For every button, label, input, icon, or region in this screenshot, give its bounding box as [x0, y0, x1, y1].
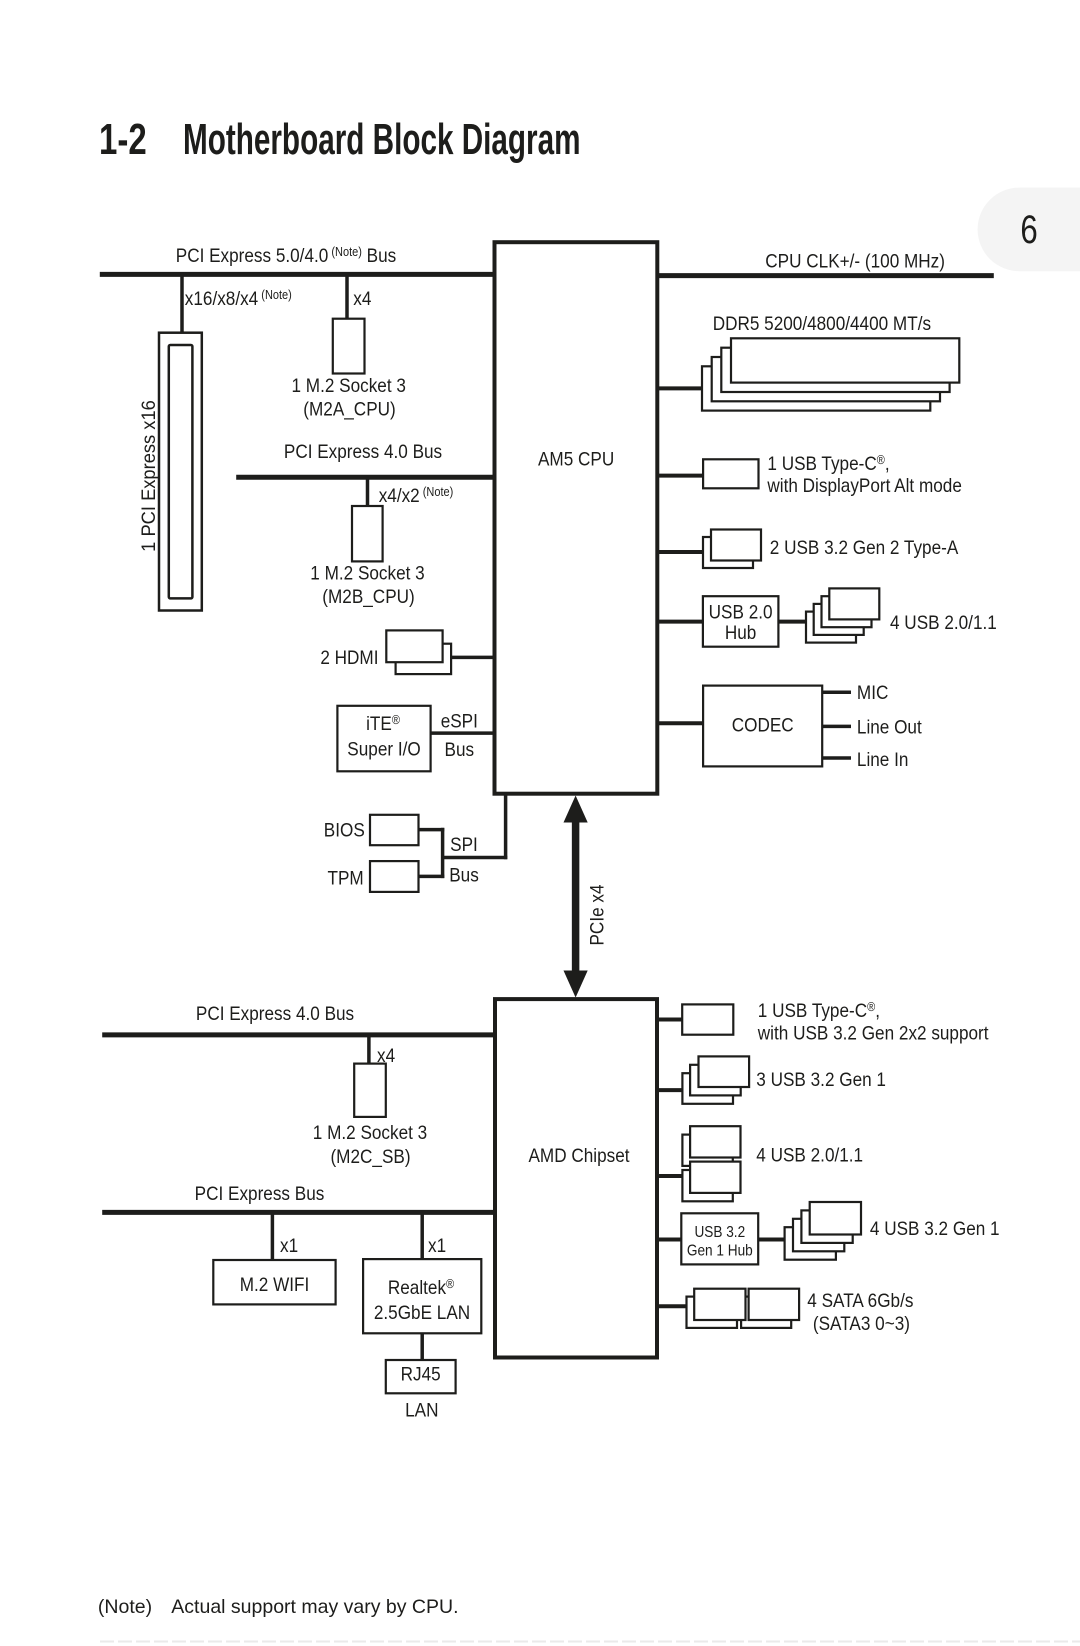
svg-text:(M2A_CPU): (M2A_CPU) — [303, 397, 395, 420]
connector: 2 USB 3.2 Gen 2 Type-A — [703, 530, 959, 569]
connector: 4 SATA 6Gb/s ports — [687, 1289, 914, 1335]
svg-text:LAN: LAN — [405, 1398, 438, 1420]
svg-text:BIOS: BIOS — [324, 818, 365, 840]
wire: CPU to USB Type-C — [657, 474, 703, 478]
svg-text:with DisplayPort Alt mode: with DisplayPort Alt mode — [766, 474, 961, 496]
bottom dashed rule — [100, 1641, 1080, 1643]
wire: hub to 4 USB 3.2 ports — [758, 1238, 785, 1242]
page number tab — [978, 188, 1080, 272]
svg-text:(M2B_CPU): (M2B_CPU) — [322, 585, 414, 608]
svg-text:USB 3.2: USB 3.2 — [694, 1224, 745, 1241]
wire: bus1 to PCIe x16 slot — [180, 276, 184, 334]
chip U7: AMD Chipset box — [495, 999, 657, 1357]
svg-text:with USB 3.2 Gen 2x2 support: with USB 3.2 Gen 2x2 support — [757, 1021, 989, 1043]
wire: hub to USB 2.0 ports — [778, 620, 806, 624]
svg-text:Line In: Line In — [857, 748, 909, 770]
wire: bus4 to Realtek LAN — [420, 1214, 424, 1260]
bus: PCI Express 4.0 Bus (CPU) — [236, 440, 494, 477]
svg-text:x1: x1 — [280, 1234, 298, 1256]
module: M.2 WIFI — [213, 1260, 335, 1304]
wire: iTE to CPU eSPI — [431, 731, 495, 735]
wire: Realtek to RJ45 — [420, 1333, 424, 1361]
svg-text:TPM: TPM — [327, 866, 363, 888]
chip U9: USB 3.2 Gen 1 Hub — [681, 1213, 758, 1264]
svg-text:Hub: Hub — [725, 621, 756, 643]
svg-text:Gen 1 Hub: Gen 1 Hub — [687, 1243, 753, 1260]
svg-text:DDR5 5200/4800/4400 MT/s: DDR5 5200/4800/4400 MT/s — [713, 312, 931, 334]
svg-text:x4: x4 — [353, 287, 371, 309]
svg-text:4 USB 2.0/1.1: 4 USB 2.0/1.1 — [890, 611, 997, 633]
svg-text:4 SATA 6Gb/s: 4 SATA 6Gb/s — [807, 1289, 913, 1311]
wire: SPI bus — [419, 794, 508, 878]
wire: chipset to 3 USB — [657, 1088, 682, 1092]
connector: DDR5 DIMM slots — [702, 338, 959, 410]
chip U3: BIOS — [324, 815, 419, 845]
chip U2: iTE Super I/O — [337, 706, 430, 772]
chip U4: TPM — [327, 861, 418, 892]
chip U8: Realtek 2.5GbE LAN — [363, 1259, 481, 1333]
svg-text:(Note): (Note) — [98, 1596, 152, 1618]
svg-text:1 USB Type-C®,: 1 USB Type-C®, — [758, 999, 880, 1021]
wire: MIC — [822, 690, 851, 694]
wire: chipset to hub — [657, 1238, 681, 1242]
wire: Line Out — [822, 725, 851, 729]
wire: CPU to CODEC — [657, 721, 703, 725]
connector M2C_SB: M.2 Socket 3 — [313, 1064, 427, 1169]
wire: bus3 to M2C socket — [367, 1037, 371, 1064]
svg-text:MIC: MIC — [857, 681, 888, 703]
bus: PCI Express 4.0 Bus (chipset) — [102, 1002, 495, 1035]
svg-text:1 M.2 Socket 3: 1 M.2 Socket 3 — [313, 1121, 427, 1143]
bus: CPU CLK — [657, 249, 994, 275]
svg-text:x16/x8/x4 (Note): x16/x8/x4 (Note) — [185, 287, 292, 309]
svg-text:1 USB Type-C®,: 1 USB Type-C®, — [767, 452, 889, 474]
svg-text:(M2C_SB): (M2C_SB) — [330, 1145, 410, 1168]
svg-text:PCIe x4: PCIe x4 — [585, 884, 607, 945]
wire: CPU to DIMMs — [657, 386, 702, 390]
svg-text:PCI Express 5.0/4.0 (Note) Bus: PCI Express 5.0/4.0 (Note) Bus — [176, 244, 396, 266]
svg-text:1 PCI Express x16: 1 PCI Express x16 — [139, 400, 161, 552]
svg-text:eSPI: eSPI — [441, 709, 478, 731]
svg-text:Super I/O: Super I/O — [347, 737, 420, 759]
wire: bus4 to M.2 WIFI — [271, 1214, 275, 1261]
svg-text:CODEC: CODEC — [732, 713, 794, 735]
wire: PCIe x4 link CPU-chipset (double arrow) — [564, 796, 608, 998]
svg-text:Motherboard Block Diagram: Motherboard Block Diagram — [183, 114, 580, 163]
svg-text:RJ45: RJ45 — [401, 1362, 441, 1384]
connector: 4 USB 2.0/1.1 ports (chipset) — [682, 1126, 863, 1201]
svg-text:3 USB 3.2 Gen 1: 3 USB 3.2 Gen 1 — [756, 1068, 886, 1090]
wire: Line In — [822, 756, 851, 760]
svg-text:(SATA3 0~3): (SATA3 0~3) — [813, 1312, 910, 1334]
svg-text:1 M.2 Socket 3: 1 M.2 Socket 3 — [310, 561, 424, 583]
svg-text:SPI: SPI — [450, 833, 478, 855]
footnote — [98, 1596, 459, 1618]
connector M2B_CPU: M.2 Socket 3 — [310, 506, 424, 608]
page title — [99, 114, 580, 164]
connector: USB Type-C (CPU) — [703, 452, 962, 496]
svg-text:PCI Express 4.0 Bus: PCI Express 4.0 Bus — [284, 440, 442, 462]
wire: CPU to USB 3.2 Gen 2 — [657, 550, 703, 554]
svg-text:USB 2.0: USB 2.0 — [709, 600, 773, 622]
svg-text:x1: x1 — [428, 1234, 446, 1256]
svg-text:PCI Express 4.0 Bus: PCI Express 4.0 Bus — [196, 1002, 354, 1024]
svg-text:Bus: Bus — [445, 738, 475, 760]
chip U5: USB 2.0 Hub — [703, 596, 779, 647]
wire: chipset to SATA — [657, 1304, 687, 1308]
wire: chipset to USB Type-C — [657, 1018, 682, 1022]
connector: 4 USB 2.0/1.1 ports (CPU) — [806, 588, 997, 642]
bus: PCI Express 5.0/4.0 Bus — [100, 244, 495, 274]
svg-text:4 USB 3.2 Gen 1: 4 USB 3.2 Gen 1 — [870, 1217, 1000, 1239]
wire: CPU to USB 2.0 hub — [657, 620, 703, 624]
svg-text:6: 6 — [1020, 207, 1037, 252]
svg-text:2 USB 3.2 Gen 2 Type-A: 2 USB 3.2 Gen 2 Type-A — [770, 536, 959, 558]
connector: RJ45 — [386, 1360, 456, 1393]
connector: 3 USB 3.2 Gen 1 ports — [682, 1056, 886, 1103]
svg-text:Line Out: Line Out — [857, 715, 922, 737]
svg-text:4 USB 2.0/1.1: 4 USB 2.0/1.1 — [756, 1143, 863, 1165]
svg-text:Actual support may vary by CPU: Actual support may vary by CPU. — [171, 1596, 458, 1618]
bus: PCI Express Bus (chipset) — [102, 1182, 495, 1212]
svg-text:CPU CLK+/- (100 MHz): CPU CLK+/- (100 MHz) — [765, 249, 945, 271]
chip U6: CODEC — [703, 686, 822, 767]
svg-text:Bus: Bus — [449, 863, 479, 885]
CPU U1: AM5 CPU box — [495, 242, 658, 794]
connector J1: PCI Express x16 slot — [159, 333, 202, 611]
connector M2A_CPU: M.2 Socket 3 — [291, 319, 405, 421]
svg-text:2.5GbE LAN: 2.5GbE LAN — [374, 1301, 470, 1323]
wire: bus1 to M2A socket — [345, 276, 349, 319]
svg-text:1 M.2 Socket 3: 1 M.2 Socket 3 — [291, 374, 405, 396]
svg-text:PCI Express Bus: PCI Express Bus — [195, 1182, 325, 1204]
wire: chipset to 4 USB 2.0 — [657, 1174, 682, 1178]
wire: bus2 to M2B socket — [366, 479, 370, 507]
wire: HDMI to CPU — [451, 656, 494, 660]
svg-text:x4/x2 (Note): x4/x2 (Note) — [379, 484, 454, 506]
svg-text:M.2 WIFI: M.2 WIFI — [240, 1273, 310, 1295]
connector: 2 HDMI ports — [320, 630, 451, 674]
connector: USB Type-C (chipset) — [682, 999, 988, 1044]
svg-text:2 HDMI: 2 HDMI — [320, 646, 378, 668]
connector: 4 USB 3.2 Gen 1 ports — [785, 1202, 1000, 1260]
svg-text:AM5 CPU: AM5 CPU — [538, 447, 614, 469]
svg-text:1-2: 1-2 — [99, 116, 147, 165]
svg-text:Realtek®: Realtek® — [388, 1276, 455, 1298]
svg-text:AMD Chipset: AMD Chipset — [528, 1144, 629, 1166]
